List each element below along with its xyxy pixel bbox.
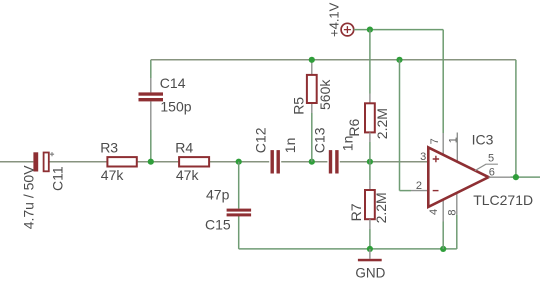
svg-text:1n: 1n xyxy=(282,138,298,154)
svg-text:IC3: IC3 xyxy=(472,131,494,147)
node: pin4 junction xyxy=(440,246,446,252)
svg-text:150p: 150p xyxy=(160,99,191,115)
node: pin2 feedback junction on rail xyxy=(396,57,402,63)
node: R4/C12/C15 junction xyxy=(236,159,242,165)
node: C12/C13/R5 junction xyxy=(309,159,315,165)
wire R7 bottom to ground rail xyxy=(369,219,371,229)
svg-text:R5: R5 xyxy=(291,97,307,115)
node: GND junction xyxy=(367,246,373,252)
svg-text:R4: R4 xyxy=(175,140,193,156)
svg-text:47k: 47k xyxy=(176,167,200,183)
node: +4.1V / R6 junction xyxy=(367,27,373,33)
capacitor C14 xyxy=(139,75,192,114)
wire input lead from left edge to C11 xyxy=(0,161,33,163)
svg-text:C12: C12 xyxy=(253,127,269,153)
wire output pin 6 xyxy=(489,176,511,178)
svg-text:8: 8 xyxy=(446,209,458,215)
feedback rail (top wire) xyxy=(151,59,516,61)
svg-text:3: 3 xyxy=(420,151,426,163)
svg-text:C14: C14 xyxy=(160,75,186,91)
capacitor C15 xyxy=(205,186,251,232)
node: R5 top on rail xyxy=(309,57,315,63)
op-amp IC3 TLC271D xyxy=(416,131,533,215)
capacitor C13 xyxy=(312,127,356,173)
svg-text:C13: C13 xyxy=(312,127,328,153)
wire C11 to R3 xyxy=(49,161,107,163)
svg-text:560k: 560k xyxy=(317,79,333,110)
wire R5 top to rail xyxy=(311,60,313,75)
wire node down to R7 xyxy=(369,162,371,181)
svg-text:+4.1V: +4.1V xyxy=(326,2,341,37)
resistor R7 xyxy=(348,190,389,223)
svg-text:C11: C11 xyxy=(50,166,66,191)
node: C13/R6/R7 junction xyxy=(367,159,373,165)
wire C13 to op-amp pin 3 xyxy=(339,161,429,163)
svg-text:4: 4 xyxy=(428,209,440,215)
resistor R5 xyxy=(291,75,333,115)
wire node R3/R4 up to C14 xyxy=(150,130,152,162)
svg-text:4.7u / 50V: 4.7u / 50V xyxy=(20,165,36,229)
wire C12 to C13 xyxy=(280,161,329,163)
svg-text:R7: R7 xyxy=(348,203,364,221)
wire +4.1V to pin 7 drop xyxy=(354,29,444,31)
minus input mark xyxy=(433,190,439,192)
pin 4 stub and wire to ground rail xyxy=(442,200,444,222)
resistor R3 xyxy=(100,140,137,184)
svg-text:TLC271D: TLC271D xyxy=(473,192,533,208)
pin 8 stub and wire to ground rail xyxy=(456,193,458,215)
svg-text:47k: 47k xyxy=(101,167,125,183)
power +4.1V supply symbol xyxy=(326,2,353,37)
svg-text:1: 1 xyxy=(448,137,460,143)
svg-text:R6: R6 xyxy=(346,118,362,136)
pin 7 stub xyxy=(442,133,444,155)
wire C14 top to feedback rail xyxy=(150,78,152,92)
svg-text:1n: 1n xyxy=(339,136,355,152)
wire rail down to output junction (feedback) xyxy=(515,60,517,177)
wire node down to C15 xyxy=(238,162,240,209)
pin 5 stub xyxy=(475,164,498,170)
svg-text:7: 7 xyxy=(429,138,441,144)
node: R3/R4 junction xyxy=(148,159,154,165)
svg-text:R3: R3 xyxy=(100,140,118,156)
ground rail xyxy=(239,248,457,250)
capacitor C11 (polarized) xyxy=(20,152,65,229)
resistor R6 xyxy=(346,103,390,139)
wire R4 to C12 xyxy=(209,161,270,163)
wire R5 bottom to node xyxy=(311,113,313,162)
wire rail down to pin 2 xyxy=(399,60,401,191)
wire pin2 stub xyxy=(411,190,428,192)
wire +4.1V down to R6 xyxy=(369,30,371,94)
wire pin7 supply drop xyxy=(442,30,444,133)
wire R3 to R4 through node xyxy=(137,161,179,163)
svg-text:2: 2 xyxy=(416,180,422,192)
wire R6 bottom to node xyxy=(369,132,371,142)
svg-text:C15: C15 xyxy=(205,217,231,233)
svg-text:47p: 47p xyxy=(206,186,230,202)
capacitor C12 xyxy=(253,127,298,173)
svg-text:GND: GND xyxy=(355,265,385,280)
pin 1 stub xyxy=(456,133,458,162)
ground GND symbol xyxy=(355,249,385,280)
svg-text:5: 5 xyxy=(488,153,494,165)
wire C15 bottom to ground rail xyxy=(238,216,240,249)
svg-text:2.2M: 2.2M xyxy=(373,192,389,223)
resistor R4 xyxy=(175,140,209,184)
node: output junction xyxy=(513,174,519,180)
plus input mark xyxy=(433,156,439,162)
svg-text:2.2M: 2.2M xyxy=(374,108,390,139)
